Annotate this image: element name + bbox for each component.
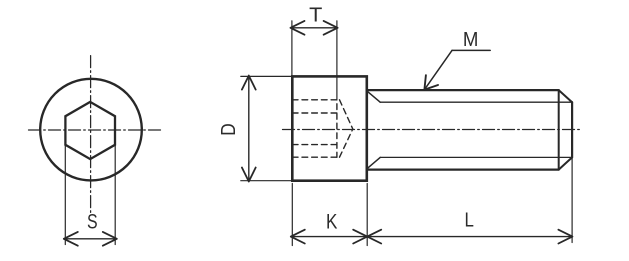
dimension T: right arrowhead bbox=[324, 21, 338, 35]
leader M: diagonal leader line bbox=[424, 50, 452, 89]
dimension T: left arrowhead bbox=[291, 21, 305, 35]
dimension S: dimension line bbox=[64, 238, 117, 240]
svg-text:M: M bbox=[463, 28, 479, 51]
dimension D: top arrowhead bbox=[242, 76, 256, 90]
side view: socket cone hidden diagonal lower bbox=[340, 129, 353, 157]
dimension D: bottom extension line bbox=[241, 180, 292, 182]
leader M: horizontal leader line bbox=[452, 49, 490, 51]
dimension K/L: middle extension line bbox=[366, 184, 368, 246]
side view: shaft end face bbox=[571, 102, 573, 157]
dimension S: right extension line bbox=[114, 146, 116, 245]
side view: thread root line top bbox=[380, 101, 572, 103]
dimension L: right extension line bbox=[571, 155, 573, 243]
side view: socket hidden line bottom inner bbox=[292, 144, 337, 146]
side view: chamfer diagonal top bbox=[559, 90, 572, 102]
side view: socket cone hidden diagonal upper bbox=[340, 100, 353, 129]
side view: chamfer diagonal bottom bbox=[559, 157, 572, 169]
svg-text:S: S bbox=[87, 211, 98, 234]
side view: socket hidden line top outer bbox=[292, 99, 339, 101]
dimension D: bottom arrowhead bbox=[242, 168, 256, 182]
side view: socket depth hidden vertical line bbox=[336, 100, 338, 157]
dimension K/L: left extension line bbox=[291, 184, 293, 246]
svg-text:T: T bbox=[309, 4, 322, 26]
side view: thread root line bottom bbox=[380, 156, 572, 158]
side view: socket hidden line bottom outer bbox=[292, 156, 339, 158]
dimension T: left extension line bbox=[291, 21, 293, 75]
end view: screw head outline circle bbox=[40, 79, 142, 181]
side view: thread lead-in diagonal top bbox=[367, 91, 380, 102]
dimension K: dimension line bbox=[291, 236, 367, 238]
svg-text:K: K bbox=[326, 210, 337, 233]
end view: horizontal centerline bbox=[29, 129, 164, 131]
svg-text:L: L bbox=[465, 209, 474, 231]
svg-text:D: D bbox=[218, 123, 240, 136]
dimension L: dimension line bbox=[367, 236, 572, 238]
end view: vertical centerline bbox=[90, 56, 92, 213]
side view: thread lead-in diagonal bottom bbox=[367, 157, 380, 168]
dimension S: left extension line bbox=[64, 146, 66, 245]
dimension S: right arrowhead bbox=[103, 232, 117, 246]
end view: hex socket hexagon bbox=[65, 102, 115, 159]
side view: chamfer start vertical line bbox=[558, 90, 560, 170]
dimension K: left arrowhead bbox=[291, 230, 305, 244]
side view: screw axis centerline bbox=[283, 129, 581, 131]
dimension K/L: middle double arrowhead bbox=[353, 230, 381, 244]
dimension T: right extension line into socket bbox=[336, 21, 338, 100]
dimension T: dimension line bbox=[291, 27, 338, 29]
dimension S: left arrowhead bbox=[64, 232, 78, 246]
dimension L: right arrowhead bbox=[558, 230, 572, 244]
dimension D: dimension line bbox=[248, 76, 250, 182]
side view: shaft top outline bbox=[367, 89, 559, 91]
dimension D: top extension line bbox=[241, 75, 292, 77]
side view: shaft bottom outline bbox=[367, 169, 559, 171]
side view: head outline rectangle bbox=[292, 76, 367, 180]
leader M: arrowhead bbox=[424, 75, 438, 90]
side view: socket hidden line top inner bbox=[292, 112, 337, 114]
